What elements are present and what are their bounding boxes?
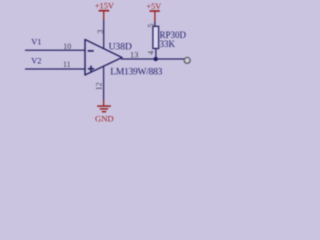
svg-text:33K: 33K (160, 39, 176, 49)
junction dot (154, 57, 158, 61)
op-amp non-inverting input plus sign (88, 66, 94, 72)
resistor RP30D body (153, 26, 159, 48)
power +5V stem (154, 11, 156, 21)
op-amp inverting input minus sign (88, 50, 94, 52)
pin 13 output wire (121, 58, 184, 60)
power +15V bar (99, 10, 110, 12)
ground bar 2 (100, 108, 108, 110)
svg-text:U38D: U38D (109, 42, 132, 52)
resistor bottom lead (pin 4) (155, 49, 157, 60)
output terminal circle (184, 57, 190, 63)
svg-text:10: 10 (63, 42, 71, 51)
svg-text:V2: V2 (31, 57, 41, 66)
ground bar 1 (97, 105, 111, 107)
svg-text:12: 12 (95, 82, 104, 90)
ground bar 3 (102, 111, 106, 113)
pin 12 wire (V- ground pin) (103, 66, 105, 101)
power +15V stem (103, 11, 105, 20)
svg-text:11: 11 (63, 60, 71, 69)
svg-text:V1: V1 (31, 38, 41, 47)
svg-text:13: 13 (130, 50, 138, 59)
svg-text:LM139W/883: LM139W/883 (110, 68, 162, 78)
wire V1 input (25, 49, 85, 51)
ground stem (103, 100, 105, 107)
pin 3 wire (V+ power pin) (103, 20, 105, 49)
svg-text:5: 5 (146, 24, 155, 28)
power +5V bar (150, 10, 160, 12)
svg-text:4: 4 (147, 51, 156, 55)
svg-text:GND: GND (95, 113, 114, 123)
op-amp U38D triangle body (85, 40, 122, 76)
svg-text:3: 3 (96, 30, 105, 34)
svg-text:+15V: +15V (95, 2, 114, 11)
resistor top lead (pin 5) (154, 21, 156, 26)
wire V2 input (25, 68, 85, 70)
svg-text:+5V: +5V (146, 2, 161, 11)
